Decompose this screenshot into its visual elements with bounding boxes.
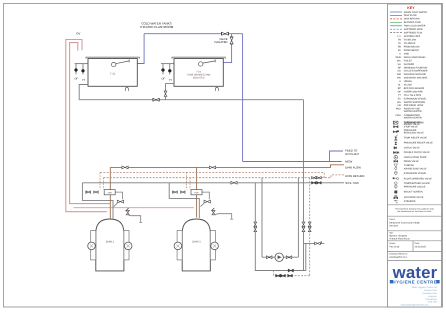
key symbol row: PRESSURE REDUCING VALVE [393, 131, 399, 133]
TMV 2 outlet valve [202, 192, 209, 199]
svg-text:OV: OV [76, 32, 80, 36]
svg-text:Ilkeston Hospitals: Ilkeston Hospitals [389, 234, 408, 237]
TMV 2 box [191, 190, 202, 195]
float valve in T-21 [112, 62, 116, 66]
svg-text:www.waterhygienecentre.com: www.waterhygienecentre.com [401, 304, 429, 307]
svg-text:THEATRE PLANTROOM: THEATRE PLANTROOM [140, 25, 174, 29]
svg-text:SOFTENED MCW: SOFTENED MCW [404, 28, 424, 31]
key symbol row: SERVISING VALVE [394, 121, 399, 123]
key row: DHW FLOW [390, 14, 402, 16]
svg-text:CWH: CWH [395, 114, 401, 117]
drain branch with drain valve [304, 242, 325, 244]
key symbol row: AIR RELEASE VALVE [395, 167, 397, 170]
svg-text:TT: TT [169, 79, 173, 82]
svg-text:DHW 1: DHW 1 [106, 241, 115, 244]
key symbol row: CIRCULATING PUMP [394, 155, 398, 159]
svg-text:CIRCULATING PUMP: CIRCULATING PUMP [404, 156, 427, 159]
key symbol row: TEMP. RELIEF VALVE [395, 135, 398, 140]
svg-text:DISHWASH MACHINE: DISHWASH MACHINE [404, 77, 428, 80]
svg-text:EXPANSION VESSEL: EXPANSION VESSEL [404, 172, 428, 175]
svg-text:TO ABOVE: TO ABOVE [404, 42, 416, 45]
svg-text:REDUCING VALVE: REDUCING VALVE [404, 132, 424, 135]
hygiene centre line with squares [390, 280, 393, 283]
svg-text:FA: FA [398, 49, 401, 52]
wire: cold feed to DHW 1 [82, 183, 113, 219]
wire: TCW header below tanks [79, 99, 303, 101]
key symbol: thermostatic mixing valve [393, 121, 398, 124]
svg-text:WASH HAND BASIN: WASH HAND BASIN [404, 56, 426, 59]
key symbol row: SOLENOID VALVE [394, 195, 398, 199]
svg-text:TB: TB [398, 39, 401, 42]
svg-text:PRE RINSE HOSE: PRE RINSE HOSE [404, 104, 424, 107]
svg-text:TOILET: TOILET [404, 59, 413, 62]
svg-text:SINK: SINK [404, 52, 410, 55]
valve: isolated valve on T-22 feed (vertical) [230, 36, 233, 38]
wire: DHW 2 flow riser [196, 167, 198, 217]
double check valves on DHW return [312, 177, 316, 179]
wire: TCW drop to bottom loop with valves [255, 183, 305, 271]
svg-text:Date:: Date: [415, 242, 420, 245]
client box [388, 230, 442, 232]
tank T-22 body [174, 59, 223, 87]
svg-text:Langston: Langston [428, 295, 438, 298]
wire: pump loop bottom [262, 256, 298, 258]
svg-text:SERVISING VALVE: SERVISING VALVE [404, 121, 425, 124]
wire: dashed bottom run [274, 271, 310, 276]
wire: dashed return bypass right [309, 178, 311, 276]
svg-text:24/11/2015: 24/11/2015 [415, 245, 427, 248]
key symbol row: STRAINER [394, 200, 398, 203]
wire: DHW 1 flow riser [109, 167, 111, 218]
wire: DHW flow header [110, 165, 344, 168]
svg-text:Services: Services [389, 224, 399, 227]
svg-text:RO PLANT: RO PLANT [345, 152, 359, 156]
wire: TCW main drop at right [303, 100, 305, 271]
wire: return label leader [322, 175, 345, 178]
svg-text:EV: EV [398, 97, 402, 100]
tank T-21 lid [86, 57, 139, 59]
svg-text:TEMP. RELIEF VALVE: TEMP. RELIEF VALVE [404, 136, 428, 139]
svg-text:This schematic drawing is for: This schematic drawing is for guidance o… [395, 207, 435, 210]
svg-text:SOLENOID VALVE: SOLENOID VALVE [404, 196, 424, 199]
note box [388, 215, 442, 217]
svg-text:DRINKING FOUNTAIN: DRINKING FOUNTAIN [404, 66, 428, 69]
DHW cylinder 1 [96, 219, 124, 271]
svg-text:FB: FB [398, 46, 401, 49]
svg-text:DHW FLOW: DHW FLOW [345, 165, 361, 169]
svg-text:WS: WS [397, 101, 401, 104]
svg-text:STRAINER: STRAINER [404, 200, 416, 203]
T+P relief valve on DHW 2 [211, 208, 214, 211]
svg-text:STOP VALVE: STOP VALVE [404, 125, 418, 128]
svg-text:OF: OF [161, 77, 165, 80]
wire: TCW label leader [330, 182, 345, 184]
wire: feed to RO plant branch [330, 151, 343, 162]
svg-text:C-H: C-H [397, 35, 401, 38]
key box [388, 204, 442, 206]
svg-text:TELL TALE PIPE: TELL TALE PIPE [404, 94, 422, 97]
wire: DHW return header B (dashed) [103, 177, 311, 179]
svg-text:Drawing Reference:: Drawing Reference: [389, 253, 408, 256]
svg-text:DHW 2: DHW 2 [192, 241, 201, 244]
svg-text:BLENDED DHW: BLENDED DHW [404, 21, 422, 24]
key symbol row: PRESSURE GAUGE [394, 185, 397, 188]
svg-text:EXPANSION VESSEL: EXPANSION VESSEL [404, 97, 428, 100]
svg-text:T-21: T-21 [110, 72, 116, 75]
valve after pump [286, 256, 292, 259]
svg-text:PRESSURE GAUGE: PRESSURE GAUGE [404, 185, 426, 188]
wire: MCW top header (blue) [144, 33, 243, 35]
overflow discharge pipe (outer, red) [66, 40, 107, 212]
drawing reference box [388, 259, 442, 261]
svg-text:the dimensions are not drawn t: the dimensions are not drawn to scale. [397, 210, 432, 213]
svg-text:POU: POU [396, 108, 401, 111]
svg-text:ISOLATED: ISOLATED [214, 41, 227, 44]
TMV 2 supply valves [172, 191, 174, 194]
circulating pump [275, 253, 283, 261]
svg-text:KEY: KEY [407, 6, 415, 10]
key symbol row: PRESSURE RELIEF VALVE [394, 141, 397, 145]
key symbol row: STOP VALVE [394, 126, 399, 128]
valve: MCW isolation valve on top header [220, 32, 222, 35]
svg-text:CHECK VALVE: CHECK VALVE [404, 147, 420, 150]
svg-text:TANK COLD WATER: TANK COLD WATER [404, 25, 426, 28]
wire: MCW drop to tank T-22 [222, 34, 232, 63]
DHW 1 side lugs and pumps [91, 231, 96, 260]
svg-text:CD: CD [397, 70, 401, 73]
svg-text:OF: OF [74, 77, 78, 80]
svg-text:WC: WC [397, 59, 401, 62]
key symbol row: FLOAT OPERATED VALVE [393, 178, 399, 180]
drawn and date boxes [388, 250, 442, 252]
site box [388, 240, 442, 242]
wire: MCW main riser down right side [242, 34, 244, 162]
svg-text:OX5 1AB: OX5 1AB [428, 301, 438, 304]
valves on dashed bottom run [276, 274, 281, 277]
svg-text:Derbyshire Community Health: Derbyshire Community Health [389, 221, 420, 224]
svg-text:TA: TA [398, 42, 401, 45]
key symbol row: TUNDISH [394, 164, 397, 167]
float valve in T-22 [199, 62, 203, 66]
overflow/telltale stubs on T-22 [161, 63, 174, 65]
DHW cylinder 2 [182, 219, 210, 271]
key / title block column [388, 4, 442, 307]
wire: MCW drop to tank T-21 [136, 34, 144, 64]
svg-text:TMV: TMV [194, 192, 199, 195]
svg-text:Theatre Plant Room: Theatre Plant Room [389, 237, 410, 240]
svg-text:SLUICE: SLUICE [404, 84, 413, 87]
svg-text:DHW RETURN: DHW RETURN [404, 18, 420, 21]
valve on TCW header [152, 98, 154, 101]
svg-text:Site:: Site: [389, 231, 394, 234]
key symbol row: EXPANSION VESSEL [394, 171, 397, 175]
key row: MAINS COLD WATER [390, 11, 402, 13]
drain under T-21 [125, 87, 128, 91]
svg-text:DRAIN VALVE: DRAIN VALVE [404, 160, 419, 163]
tank T-21 body [88, 59, 137, 87]
tank T-22 lid [172, 57, 225, 59]
TMV 1 box [104, 190, 115, 195]
svg-text:WATER HEATER: WATER HEATER [404, 116, 422, 119]
svg-text:SHOWER: SHOWER [404, 63, 415, 66]
svg-text:URINAL: URINAL [404, 80, 413, 83]
key row: DHW RETURN [390, 18, 402, 20]
svg-text:Knowsley Way: Knowsley Way [423, 292, 438, 295]
svg-text:Water Hygiene Centre Ltd: Water Hygiene Centre Ltd [412, 286, 438, 289]
svg-text:TMV: TMV [107, 192, 112, 195]
svg-text:BED PAN WASHER: BED PAN WASHER [404, 87, 425, 90]
key symbol row: INDUCT SCREEN [395, 191, 398, 194]
key symbol row: DOUBLE CHECK VALVE [393, 151, 398, 153]
svg-text:DOUBLE CHECK VALVE: DOUBLE CHECK VALVE [404, 151, 430, 154]
TMV 1 return drops (dashed) [99, 172, 101, 189]
wire: MCW horizontal run to label [243, 161, 342, 163]
wire: DHW return header A (dashed) [100, 172, 324, 177]
telltale discharge pipe (inner, red) [70, 43, 110, 204]
svg-text:Drawn:: Drawn: [389, 242, 396, 245]
overflow/telltale stubs on T-21 [75, 63, 88, 65]
svg-text:WHB: WHB [395, 56, 401, 59]
svg-text:PRESSURE RELIEF VALVE: PRESSURE RELIEF VALVE [404, 142, 433, 145]
svg-text:HYGIENE CENTRE: HYGIENE CENTRE [393, 279, 438, 284]
key symbol row: DRAIN VALVE [394, 160, 398, 163]
svg-text:TUNDISH: TUNDISH [404, 164, 415, 167]
wire: site TCW distribution header [82, 182, 329, 184]
key row: SOFTENED TCW [390, 32, 402, 34]
wire: T-21 outlet [79, 85, 88, 100]
svg-text:FLOAT OPERATED VALVE: FLOAT OPERATED VALVE [404, 177, 432, 180]
valve before pump [266, 256, 272, 259]
relief discharge line to DHW 2 [73, 207, 193, 209]
key row: SOFTENED MCW [390, 28, 402, 30]
TMV 1 outlet valve [115, 192, 122, 199]
TMV 2 return drops (dashed) [186, 172, 188, 189]
svg-text:SOFTENED TCW: SOFTENED TCW [404, 32, 423, 35]
svg-text:TT: TT [82, 79, 86, 82]
svg-text:TEMPERATURE GAUGE: TEMPERATURE GAUGE [404, 182, 431, 185]
DHW 2 side lugs and pumps [177, 231, 182, 260]
TMV 1 supply valves [85, 191, 87, 194]
svg-text:SH: SH [398, 63, 402, 66]
svg-text:WASHING MACHINE: WASHING MACHINE [404, 73, 427, 76]
svg-text:MCW: MCW [345, 160, 352, 164]
svg-text:Oxfordshire: Oxfordshire [425, 298, 437, 301]
key row: BLENDED DHW [390, 21, 402, 23]
svg-text:ISOLATED: ISOLATED [193, 77, 205, 80]
key row: TANK COLD WATER [390, 25, 402, 27]
key symbol row: CHECK VALVE [394, 147, 397, 150]
svg-text:WATER SOFTENER: WATER SOFTENER [404, 101, 426, 104]
check valve on bottom run [288, 269, 293, 272]
svg-text:DHW RETURN: DHW RETURN [345, 174, 364, 178]
svg-text:Client:: Client: [389, 218, 395, 221]
svg-text:SCHEMATIC N-2: SCHEMATIC N-2 [389, 256, 407, 259]
wire: cold feed to DHW 2 [169, 183, 199, 218]
svg-text:MAINS COLD WATER: MAINS COLD WATER [404, 11, 427, 14]
wire: T-22 outlet with valve [166, 84, 175, 100]
svg-text:WATER HEATER: WATER HEATER [404, 110, 422, 113]
svg-text:TO BELOW: TO BELOW [404, 39, 417, 42]
wire: return riser to pump loop [261, 178, 263, 258]
svg-text:INDUCT SCREEN: INDUCT SCREEN [404, 191, 423, 194]
key symbol row: TEMPERATURE GAUGE [394, 182, 397, 185]
svg-text:OVERFLOW PIPE: OVERFLOW PIPE [404, 90, 423, 93]
svg-text:WM: WM [397, 73, 401, 76]
T+P relief valve on DHW 1 [126, 208, 129, 211]
svg-text:Venture Park: Venture Park [424, 289, 438, 292]
svg-text:SITE TCW: SITE TCW [345, 181, 359, 185]
valve on DHW2 flow [209, 166, 215, 169]
svg-text:SENTINEL REF: SENTINEL REF [404, 35, 421, 38]
valve on TCW distribution header [231, 181, 237, 184]
svg-text:TW 12/16: TW 12/16 [389, 245, 400, 248]
valve on DHW1 flow [122, 166, 128, 169]
valves on TCW main drop [302, 222, 305, 227]
svg-text:CHILLED DISPENSER: CHILLED DISPENSER [404, 70, 428, 73]
drain under T-22 [215, 87, 218, 91]
svg-text:BP: BP [398, 87, 402, 90]
wire: pump loop right riser [297, 178, 299, 258]
svg-text:DHW FLOW: DHW FLOW [404, 14, 418, 17]
svg-text:AIR RELEASE VALVE: AIR RELEASE VALVE [404, 168, 427, 171]
svg-text:FROM ABOVE: FROM ABOVE [404, 49, 420, 52]
stop valves on site TCW [312, 182, 316, 184]
svg-text:HB: HB [398, 104, 402, 107]
svg-text:FROM BELOW: FROM BELOW [404, 46, 421, 49]
